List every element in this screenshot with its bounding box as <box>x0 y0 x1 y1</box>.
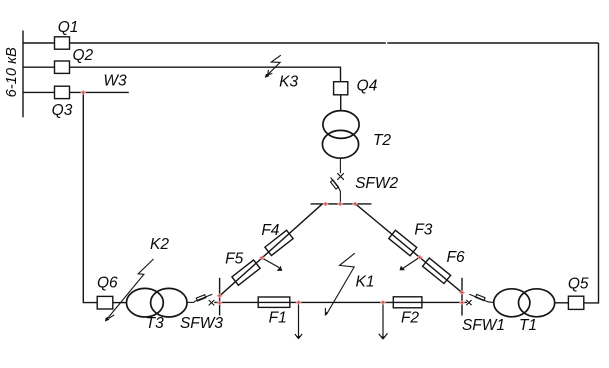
svg-text:F6: F6 <box>447 249 465 266</box>
wire feeder1 left <box>23 42 55 44</box>
breaker Q3 <box>55 86 70 98</box>
svg-text:F1: F1 <box>269 310 287 327</box>
load arrow left diagonal <box>262 258 279 268</box>
node bar right <box>461 278 463 316</box>
arrowhead down F2 <box>379 333 388 339</box>
svg-text:F5: F5 <box>225 251 243 268</box>
fuse F2 <box>393 297 422 308</box>
junction dots (red) <box>80 90 465 305</box>
breaker Q4 <box>334 82 348 95</box>
wire Q4 to T2 <box>340 95 342 111</box>
svg-text:F4: F4 <box>261 222 279 239</box>
wire Q6 to T3 <box>113 302 127 304</box>
svg-text:SFW2: SFW2 <box>355 175 398 192</box>
fuse F4 <box>265 230 293 255</box>
load arrow right diagonal <box>402 257 420 269</box>
svg-text:F3: F3 <box>414 222 432 239</box>
wire W3 stub <box>70 91 129 93</box>
svg-text:T2: T2 <box>373 132 391 149</box>
breaker Q1 <box>55 37 70 49</box>
load arrow at F2 node <box>382 302 384 338</box>
fault K1 <box>325 253 355 316</box>
fault K3 <box>265 55 281 77</box>
fault K2 <box>105 259 154 322</box>
breaker Q6 <box>97 296 113 309</box>
wire bottom line <box>214 301 467 303</box>
switch SFW3 <box>187 294 214 305</box>
node bar top <box>311 203 372 205</box>
transformer T3 <box>126 288 187 317</box>
svg-text:T1: T1 <box>519 317 537 334</box>
switch SFW1 <box>466 294 494 305</box>
fuse F3 <box>389 230 417 256</box>
breaker Q5 <box>568 296 583 309</box>
arrowheads (filled) <box>277 266 405 340</box>
svg-text:SFW3: SFW3 <box>180 315 223 332</box>
fuse F6 <box>423 258 451 284</box>
svg-text:K3: K3 <box>279 73 298 90</box>
wire Q5 to T1 <box>555 302 569 304</box>
wire feeder2 <box>23 66 55 68</box>
node bar left <box>219 278 221 316</box>
svg-text:Q3: Q3 <box>52 102 73 119</box>
svg-text:6-10 кВ: 6-10 кВ <box>4 47 20 97</box>
svg-text:K2: K2 <box>150 236 169 253</box>
svg-text:W3: W3 <box>103 72 127 89</box>
wire feeder1 top <box>70 42 599 44</box>
wire bus to Q6 <box>83 92 97 302</box>
svg-text:Q1: Q1 <box>58 19 79 36</box>
arrowhead right diagonal <box>400 266 406 270</box>
wire right vertical <box>584 43 599 303</box>
transformer T2 <box>322 111 359 159</box>
svg-text:Q6: Q6 <box>97 274 118 291</box>
wire feeder2 to Q4 <box>70 67 341 82</box>
svg-text:Q2: Q2 <box>72 47 93 64</box>
svg-text:Q5: Q5 <box>568 275 589 292</box>
wire diagonal right <box>356 204 462 292</box>
fuse F1 <box>258 297 290 307</box>
switch SFW2 <box>330 158 343 204</box>
svg-text:F2: F2 <box>401 310 419 327</box>
load arrow at F1 node <box>298 302 300 338</box>
arrowhead left diagonal <box>277 266 283 271</box>
wire diagonal left <box>220 204 322 296</box>
transformer T1 <box>494 289 555 317</box>
svg-text:SFW1: SFW1 <box>462 317 505 334</box>
bus 6-10kV <box>22 31 24 118</box>
fuse F5 <box>232 260 260 285</box>
arrowhead down F1 <box>295 334 302 339</box>
svg-text:K1: K1 <box>356 274 375 291</box>
svg-text:Q4: Q4 <box>357 78 378 95</box>
svg-text:T3: T3 <box>146 315 164 332</box>
breaker Q2 <box>55 61 70 73</box>
wire feeder3 <box>23 91 55 93</box>
